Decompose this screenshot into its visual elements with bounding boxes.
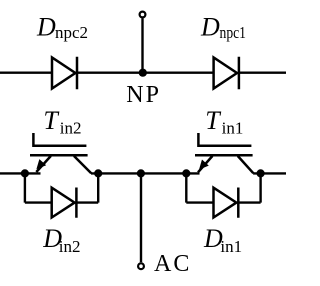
svg-text:T: T — [205, 106, 221, 135]
svg-text:AC: AC — [154, 251, 191, 277]
svg-text:NP: NP — [126, 82, 161, 108]
svg-text:in2: in2 — [60, 119, 82, 138]
svg-text:T: T — [43, 106, 59, 135]
svg-text:in2: in2 — [59, 237, 81, 256]
svg-text:D: D — [36, 13, 56, 42]
svg-text:npc1: npc1 — [220, 23, 247, 42]
svg-text:in1: in1 — [220, 237, 242, 256]
svg-text:D: D — [200, 13, 220, 42]
svg-text:npc2: npc2 — [55, 23, 88, 42]
svg-text:in1: in1 — [222, 119, 244, 138]
